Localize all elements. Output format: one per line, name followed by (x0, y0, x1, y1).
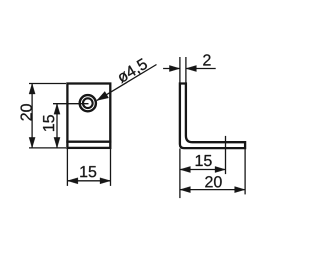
dim 15 up arrow (54, 104, 60, 115)
dim 20 up arrow (29, 84, 35, 95)
side dim 20 dimension line (180, 189, 245, 191)
dim 15 bottom right extension line (110, 149, 112, 186)
side dim 15 dimension line (180, 169, 226, 171)
flange hole center line (225, 136, 227, 174)
front view plate outline (67, 84, 110, 148)
dim 15 vertical text (43, 115, 54, 131)
side view L-profile (180, 84, 245, 149)
side dim 15 right arrow (215, 166, 226, 172)
dim 2 right arrow pointing left (186, 65, 197, 71)
hole outer circle (80, 95, 96, 111)
dim 15 down arrow (54, 137, 60, 148)
dim 15 bottom text (80, 166, 96, 177)
side dim 20 text (205, 176, 221, 187)
side left extension line (179, 149, 181, 199)
dim 20 top extension line (29, 83, 66, 85)
side dim 20 left arrow (180, 187, 191, 193)
dim 2 left extension line (179, 57, 181, 83)
dim 2 text (203, 54, 210, 65)
side dim 15 text (196, 155, 212, 166)
bend line (66, 141, 111, 143)
dim 15 bottom right arrow (100, 178, 111, 184)
side right extension line (244, 149, 246, 195)
side dim 20 right arrow (235, 187, 246, 193)
dim 15 bottom left extension line (66, 149, 68, 186)
dim 2 right extension line (185, 57, 187, 83)
dim 20 down arrow (29, 137, 35, 148)
hole label ø4,5 (116, 58, 149, 85)
dim 2 left arrow pointing right (169, 65, 180, 71)
dim 20 dimension line (31, 84, 33, 148)
dim 15 bottom left arrow (67, 178, 78, 184)
dim 20 bottom extension line (29, 147, 66, 149)
hole leader arrow (97, 91, 109, 100)
dim 2 left dimension line (163, 68, 180, 70)
hole inner circle (83, 98, 93, 108)
side dim 15 left arrow (180, 166, 191, 172)
dim 15 vertical dimension line (56, 104, 58, 148)
dim 15 bottom dimension line (67, 180, 110, 182)
dim 2 right dimension line (186, 68, 216, 70)
hole leader line (97, 65, 157, 101)
dim 20 text (21, 104, 32, 120)
hole center extension line (53, 103, 89, 105)
